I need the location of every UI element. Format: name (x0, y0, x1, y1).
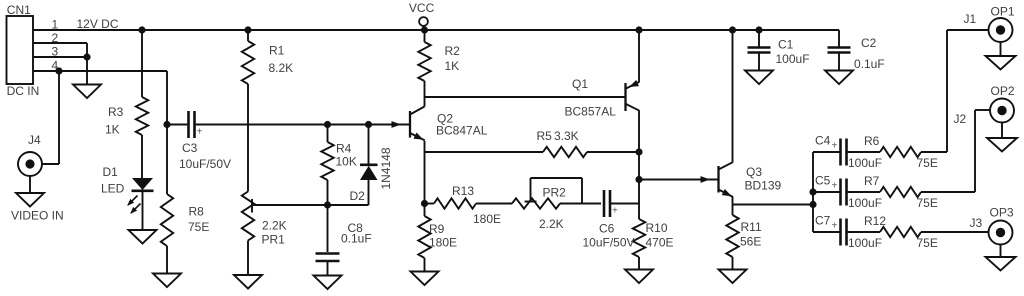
transistor Q3 (701, 176, 711, 183)
wire pin4 to J4 (58, 71, 60, 164)
resistor R13 (425, 203, 435, 205)
svg-text:75E: 75E (917, 156, 938, 170)
connector CN1 (7, 16, 34, 84)
svg-text:R9: R9 (429, 222, 445, 236)
svg-text:100uF: 100uF (776, 52, 810, 66)
svg-text:C1: C1 (778, 38, 794, 52)
wire output bus vertical (812, 152, 814, 232)
resistor R12 (847, 231, 880, 233)
resistor R4 (327, 125, 329, 143)
junction Q1 emitter rail (635, 26, 642, 33)
junction R4 bottom (324, 201, 331, 208)
svg-text:180E: 180E (429, 236, 457, 250)
ground CN1 (73, 85, 101, 99)
svg-text:R10: R10 (646, 221, 668, 235)
svg-text:J1: J1 (964, 12, 977, 26)
junction C1 top (755, 26, 762, 33)
svg-text:J3: J3 (970, 216, 983, 230)
diode D2 (368, 125, 370, 166)
resistor R3 (141, 30, 143, 97)
ground J2 (1001, 123, 1003, 139)
junction Q2 emitter bottom (421, 200, 428, 207)
ground R8 (153, 274, 181, 288)
ground J4 (29, 176, 31, 193)
ground J3 (1000, 245, 1002, 258)
svg-text:R3: R3 (108, 105, 124, 119)
capacitor C3 (167, 124, 188, 126)
svg-text:PR2: PR2 (543, 186, 567, 200)
svg-text:R1: R1 (269, 44, 285, 58)
ground C2 (825, 71, 853, 85)
svg-text:R5: R5 (537, 129, 553, 143)
ground C1 (745, 71, 773, 85)
svg-text:180E: 180E (473, 212, 501, 226)
resistor R9 (424, 204, 426, 217)
svg-text:BD139: BD139 (745, 178, 782, 192)
connector J2 (990, 99, 1014, 123)
svg-text:470E: 470E (646, 236, 674, 250)
svg-text:R6: R6 (864, 134, 880, 148)
svg-text:VCC: VCC (409, 1, 435, 15)
junction pin3 (83, 53, 90, 60)
junction Q3 base node (635, 176, 642, 183)
svg-text:D2: D2 (350, 189, 366, 203)
svg-text:Q3: Q3 (746, 165, 762, 179)
wire emitter to output bus (733, 204, 814, 206)
wire R6 to J1 (921, 151, 947, 153)
capacitor C1 (758, 30, 760, 47)
svg-text:0.1uF: 0.1uF (341, 232, 372, 246)
wire pins 2-3 to ground (86, 43, 88, 85)
svg-text:56E: 56E (740, 235, 761, 249)
junction R4 top (324, 121, 331, 128)
svg-text:R2: R2 (445, 44, 461, 58)
svg-text:10K: 10K (336, 155, 357, 169)
wire C3 to Q2 base (195, 124, 409, 126)
LED D1 (132, 178, 153, 190)
ground PR1 (234, 275, 262, 289)
connector J4 (18, 152, 42, 176)
svg-text:CN1: CN1 (7, 3, 31, 17)
svg-text:+: + (832, 141, 838, 152)
svg-text:10uF/50V: 10uF/50V (583, 236, 635, 250)
ground J1 (1000, 42, 1002, 56)
svg-text:75E: 75E (917, 196, 938, 210)
svg-text:BC857AL: BC857AL (565, 104, 617, 118)
ground R10 (625, 270, 653, 284)
capacitor C2 (838, 30, 840, 47)
wire Q3 collector to rail (732, 30, 734, 163)
svg-text:J2: J2 (954, 112, 967, 126)
junction D2 top (365, 121, 372, 128)
junction bus emitter (809, 201, 816, 208)
wire to Q3 base (639, 179, 718, 181)
resistor R5 (425, 151, 544, 153)
junction Q3 collector rail (729, 26, 736, 33)
svg-text:OP2: OP2 (991, 84, 1015, 98)
svg-text:LED: LED (101, 181, 125, 195)
resistor R2 (424, 30, 426, 42)
svg-text:75E: 75E (188, 220, 209, 234)
svg-text:R12: R12 (864, 214, 886, 228)
svg-text:8.2K: 8.2K (269, 61, 294, 75)
svg-text:1K: 1K (445, 59, 460, 73)
wire Q1 emitter to rail (638, 30, 640, 82)
wire node down (638, 152, 640, 204)
svg-text:+: + (612, 206, 618, 217)
svg-text:R7: R7 (864, 174, 880, 188)
ground R9 (411, 272, 439, 286)
capacitor C8 (327, 205, 329, 252)
svg-text:1K: 1K (105, 123, 120, 137)
connector J3 (989, 221, 1013, 245)
resistor R10 (638, 204, 640, 220)
resistor R1 (247, 30, 249, 41)
svg-text:10uF/50V: 10uF/50V (179, 157, 231, 171)
svg-text:+: + (832, 181, 838, 192)
svg-text:C3: C3 (182, 141, 198, 155)
resistor R8 (161, 194, 173, 246)
junction R5 right (635, 148, 642, 155)
junction R1 top (244, 26, 251, 33)
svg-text:OP3: OP3 (990, 206, 1014, 220)
svg-text:C7: C7 (815, 214, 831, 228)
svg-text:75E: 75E (917, 236, 938, 250)
capacitor C7 (813, 231, 840, 233)
svg-text:J4: J4 (28, 133, 41, 147)
power VCC terminal (419, 17, 428, 26)
transistor Q1 (624, 83, 626, 111)
svg-text:3.3K: 3.3K (554, 129, 579, 143)
svg-text:DC IN: DC IN (7, 84, 40, 98)
svg-text:PR1: PR1 (262, 233, 286, 247)
svg-text:BC847AL: BC847AL (436, 124, 488, 138)
svg-text:100uF: 100uF (848, 196, 882, 210)
svg-text:2.2K: 2.2K (539, 217, 564, 231)
svg-text:1N4148: 1N4148 (379, 147, 393, 189)
wire R12 to J3 (921, 231, 989, 233)
connector J1 (989, 18, 1013, 42)
svg-text:D1: D1 (103, 165, 119, 179)
ground C8 (314, 276, 342, 290)
junction R2 top (421, 26, 428, 33)
wire main +12V rail (33, 29, 839, 31)
wire Q3 emitter (732, 197, 734, 215)
transistor Q2 (392, 121, 402, 128)
wire pin4 down / C3 node (166, 71, 168, 194)
svg-text:R11: R11 (741, 220, 762, 234)
wire Q2 emitter (424, 141, 426, 204)
wire R7 to J2 (921, 191, 975, 193)
svg-text:+: + (832, 221, 838, 232)
svg-text:2.2K: 2.2K (262, 219, 287, 233)
svg-text:0.1uF: 0.1uF (854, 57, 885, 71)
trimpot PR1 (242, 192, 254, 241)
wire Q1 collector (638, 110, 640, 152)
svg-text:100uF: 100uF (848, 156, 882, 170)
junction bus C5 (809, 188, 816, 195)
svg-text:VIDEO IN: VIDEO IN (11, 209, 64, 223)
svg-text:100uF: 100uF (848, 236, 882, 250)
svg-text:12V DC: 12V DC (77, 17, 119, 31)
svg-text:C4: C4 (815, 134, 831, 148)
junction R3 top (138, 26, 145, 33)
svg-text:C2: C2 (861, 36, 877, 50)
resistor R6 (847, 151, 880, 153)
trimpot PR2 (512, 198, 560, 208)
svg-text:R8: R8 (189, 205, 205, 219)
svg-text:R13: R13 (452, 184, 474, 198)
svg-text:C6: C6 (599, 222, 615, 236)
resistor R7 (847, 191, 880, 193)
svg-text:R4: R4 (336, 142, 352, 156)
wire R2 to Q1 base (425, 96, 625, 98)
svg-text:+: + (197, 127, 203, 138)
resistor R11 (726, 215, 738, 257)
capacitor C6 (603, 190, 606, 217)
svg-text:Q1: Q1 (572, 77, 588, 91)
junction pin4 (55, 67, 62, 74)
capacitor C5 (813, 191, 840, 193)
capacitor C4 (813, 151, 840, 153)
svg-text:1: 1 (52, 18, 59, 32)
svg-text:C5: C5 (815, 174, 831, 188)
ground D1 (129, 230, 157, 244)
junction C3 left (163, 121, 170, 128)
ground R11 (719, 270, 747, 284)
svg-text:OP1: OP1 (991, 5, 1015, 19)
